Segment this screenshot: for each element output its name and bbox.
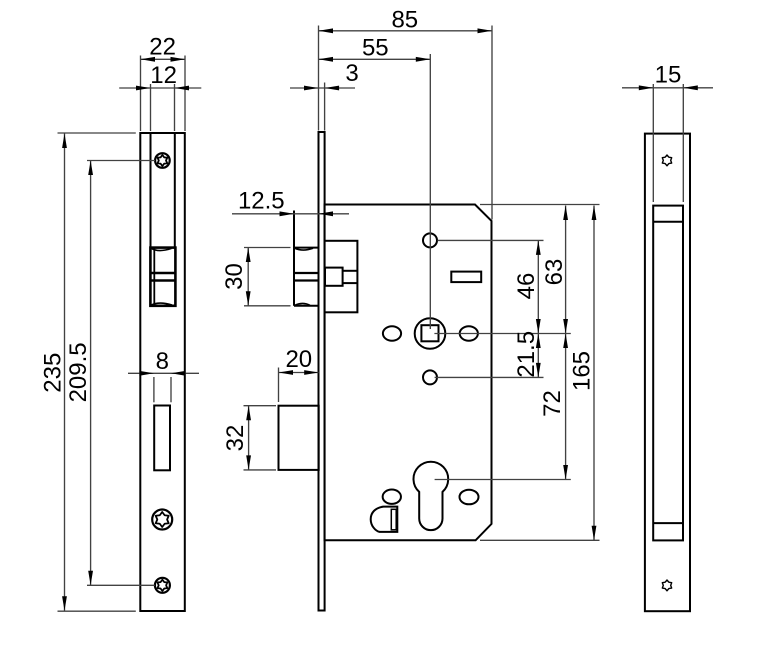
svg-text:235: 235	[40, 353, 67, 393]
svg-text:46: 46	[513, 273, 540, 300]
svg-text:209.5: 209.5	[65, 342, 92, 402]
svg-text:12.5: 12.5	[238, 188, 285, 215]
svg-text:12: 12	[150, 62, 177, 89]
svg-text:72: 72	[539, 390, 566, 417]
svg-text:21.5: 21.5	[513, 331, 540, 378]
svg-text:8: 8	[156, 348, 169, 375]
svg-text:63: 63	[541, 259, 568, 286]
svg-text:3: 3	[345, 60, 358, 87]
svg-text:15: 15	[655, 62, 682, 89]
svg-text:55: 55	[362, 34, 389, 61]
svg-text:30: 30	[221, 263, 248, 290]
svg-text:32: 32	[222, 425, 249, 452]
svg-text:20: 20	[285, 346, 312, 373]
svg-text:85: 85	[391, 7, 418, 34]
svg-text:165: 165	[569, 351, 596, 391]
svg-text:22: 22	[149, 34, 176, 61]
